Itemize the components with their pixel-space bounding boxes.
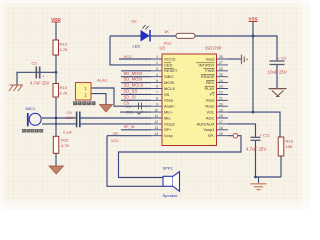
ground F (3 bars)	[251, 184, 267, 190]
no-ERC marker on SP- pin	[233, 133, 238, 138]
chip right pin names	[197, 56, 216, 138]
connector ALin1	[75, 78, 108, 101]
node A: R13/R14/C3 junction	[55, 71, 58, 74]
svg-text:SPK1: SPK1	[163, 166, 174, 171]
svg-text:Vssd: Vssd	[206, 56, 215, 61]
svg-text:R16: R16	[286, 139, 294, 144]
svg-text:SD_SS: SD_SS	[124, 89, 138, 94]
ground A (earth, hatched)	[9, 85, 23, 91]
svg-text:Vssa: Vssa	[164, 98, 174, 103]
svg-text:R12: R12	[164, 41, 172, 46]
svg-text:4.7uF 25V: 4.7uF 25V	[246, 147, 266, 152]
svg-text:CED: CED	[164, 62, 173, 67]
svg-text:4.7K: 4.7K	[61, 143, 70, 148]
wire ALin1 pin2 to ground B	[91, 94, 106, 105]
svg-text:C9: C9	[126, 105, 131, 109]
svg-text:SP_IN: SP_IN	[124, 125, 135, 129]
power VSS	[248, 17, 257, 22]
svg-text:16: 16	[219, 126, 223, 130]
svg-text:26: 26	[219, 67, 223, 71]
IC U3 ISD1760	[160, 46, 222, 146]
wire LED branch: down from top wire to pin 2	[110, 36, 151, 65]
svg-text:SS: SS	[164, 92, 170, 97]
wire R16 bottom stem	[280, 156, 282, 177]
svg-text:SP-: SP-	[113, 132, 120, 136]
svg-text:14: 14	[154, 132, 158, 136]
svg-text:4.7uF 25V: 4.7uF 25V	[30, 81, 50, 86]
speaker SPK1	[163, 166, 180, 198]
chip right pin numbers	[219, 55, 223, 136]
node B: mic bias junction	[55, 117, 58, 120]
svg-text:SIBO: SIBO	[164, 74, 174, 79]
ALin1 caption 线路输入端 (simulated glyph strokes)	[73, 101, 96, 105]
wire top rail: LED anode left segment	[110, 35, 141, 37]
wire speaker bottom lead	[107, 136, 163, 187]
svg-text:AnaIn: AnaIn	[164, 104, 174, 109]
svg-text:17: 17	[219, 120, 223, 124]
svg-text:10uF 25V: 10uF 25V	[268, 69, 288, 74]
svg-text:ALin1: ALin1	[97, 78, 108, 83]
svg-text:12: 12	[154, 120, 158, 124]
svg-text:9: 9	[156, 102, 158, 106]
svg-text:FT: FT	[210, 92, 215, 97]
resistor R14	[53, 84, 68, 98]
wire SP+ row 13 stub	[121, 129, 151, 131]
capacitor C9 C10 plates on mic lines	[77, 112, 80, 128]
wire chip row 1 right to arrow ground	[228, 58, 241, 60]
chip pin-name overbars (active-low marks)	[164, 63, 215, 93]
svg-text:VCCD: VCCD	[164, 56, 175, 61]
capacitor C11	[246, 133, 271, 152]
svg-text:FWD: FWD	[205, 68, 214, 73]
resistor R13	[53, 40, 68, 55]
svg-text:1: 1	[156, 55, 158, 59]
wire C11 bottom to bottom node	[255, 140, 257, 177]
capacitor C9/C10 labels	[63, 110, 74, 135]
svg-text:INT/RDY: INT/RDY	[199, 62, 215, 67]
svg-text:SD_SI: SD_SI	[124, 94, 136, 99]
svg-text:4.7K: 4.7K	[60, 91, 69, 96]
wire LED cathode to R12	[150, 35, 177, 37]
wire VDD stem to R13	[55, 22, 57, 40]
chip left pin numbers	[154, 55, 158, 136]
svg-text:AGC: AGC	[206, 115, 215, 120]
svg-text:SP+: SP+	[164, 127, 172, 132]
svg-text:24: 24	[219, 79, 223, 83]
svg-text:2: 2	[156, 61, 158, 65]
ground D (arrow on pin 28)	[242, 55, 248, 65]
capacitor C4	[268, 56, 288, 75]
svg-text:U3: U3	[160, 46, 166, 51]
svg-text:1K: 1K	[164, 29, 169, 34]
svg-text:21: 21	[219, 97, 223, 101]
svg-text:11: 11	[154, 114, 158, 118]
svg-text:28: 28	[219, 55, 223, 59]
wire mic node down to R15	[55, 118, 57, 136]
svg-text:20: 20	[219, 102, 223, 106]
wire C3 node to ground A	[17, 72, 56, 84]
wire chip row 10 right to R16	[228, 112, 280, 137]
svg-text:C10: C10	[66, 115, 74, 120]
svg-text:VCC: VCC	[111, 139, 119, 143]
svg-text:MOSI: MOSI	[164, 80, 174, 85]
capacitor C3	[30, 61, 50, 86]
svg-text:Vccp: Vccp	[164, 133, 174, 138]
svg-text:MCLK: MCLK	[164, 86, 175, 91]
LED D2	[132, 19, 151, 49]
svg-text:SD_MCLK: SD_MCLK	[124, 83, 144, 88]
node F: C11/R16 bottom junction	[254, 176, 257, 179]
chip left pin stubs	[151, 59, 162, 136]
wire VSS stem	[252, 22, 254, 36]
svg-text:D2: D2	[132, 19, 138, 24]
resistor R16	[278, 137, 293, 156]
wire R14 bottom to mic line	[55, 97, 57, 118]
mic caption 麦克风录音 (simulated glyph strokes)	[22, 129, 43, 133]
svg-text:Mic+: Mic+	[164, 110, 173, 115]
svg-text:VOL: VOL	[206, 110, 215, 115]
wire SP- loop: pin row 14 right, down and left	[119, 136, 242, 178]
wire R15 stem down to ground C	[55, 153, 57, 166]
svg-text:Speaker: Speaker	[163, 193, 179, 198]
svg-text:C3: C3	[32, 61, 38, 66]
microphone MIC1	[26, 106, 42, 126]
chip right pin stubs	[217, 59, 229, 136]
svg-text:+ C4: + C4	[278, 56, 287, 61]
svg-text:Mic-: Mic-	[164, 115, 172, 120]
svg-text:Vssa: Vssa	[206, 98, 216, 103]
svg-text:19: 19	[219, 108, 223, 112]
svg-text:27: 27	[219, 61, 223, 65]
svg-text:RESET: RESET	[164, 68, 178, 73]
svg-text:25: 25	[219, 73, 223, 77]
wire mic line Mic- row 12	[42, 123, 151, 125]
svg-text:3: 3	[156, 67, 158, 71]
chip left pin names	[164, 56, 178, 138]
node E: VSS rail / row10 junction	[252, 111, 255, 114]
wire bottom node to ground F stem	[258, 177, 260, 183]
svg-text:8: 8	[156, 97, 158, 101]
svg-text:R15: R15	[61, 138, 69, 143]
wire bottom node rail to R16	[256, 176, 282, 178]
capacitor C9b C10b small caps near chip	[126, 103, 143, 115]
svg-text:6: 6	[156, 85, 158, 89]
wire chip row 12 right to C11	[228, 124, 256, 137]
resistor R12	[164, 29, 195, 46]
svg-text:MIC1: MIC1	[26, 106, 36, 111]
wire VSS rail down to row 10	[252, 36, 254, 112]
resistor R15	[53, 136, 69, 153]
node C: mic line 2 junction	[55, 123, 57, 125]
wire chip row 10 stub	[120, 111, 151, 113]
svg-text:4: 4	[156, 73, 158, 77]
svg-text:VSS: VSS	[248, 17, 257, 22]
node D: VSS rail junction	[252, 35, 255, 38]
ground B (filled triangle)	[100, 105, 113, 113]
ground C (filled triangle)	[49, 166, 64, 174]
svg-text:0.1uF: 0.1uF	[63, 131, 73, 135]
svg-text:+ C11: + C11	[260, 133, 271, 138]
svg-text:VCC: VCC	[124, 54, 133, 59]
svg-text:R13: R13	[60, 42, 68, 47]
svg-text:LED: LED	[133, 44, 141, 49]
svg-text:23: 23	[219, 85, 223, 89]
wire mic line Mic+ row 11	[42, 117, 151, 119]
wire net label rows 3-8 left of chip	[121, 71, 151, 101]
svg-text:REC: REC	[206, 80, 215, 85]
svg-text:7: 7	[156, 91, 158, 95]
svg-text:18: 18	[219, 114, 223, 118]
svg-text:ERASE: ERASE	[201, 74, 215, 79]
power VDD	[51, 17, 61, 22]
wire VCC to pin 1	[119, 58, 151, 60]
svg-text:Vssp2: Vssp2	[164, 121, 176, 126]
svg-text:R14: R14	[60, 85, 68, 90]
svg-text:5: 5	[156, 79, 158, 83]
wire row 14 left from speaker vertical	[107, 135, 151, 137]
svg-text:4.7K: 4.7K	[60, 47, 69, 52]
svg-text:SD_MOSI: SD_MOSI	[124, 77, 143, 82]
svg-text:Rosc: Rosc	[205, 104, 214, 109]
wire ALin1 pin1 to chip AnaIn row 9	[91, 88, 151, 106]
svg-text:13: 13	[154, 126, 158, 130]
svg-text:AUD/AUX: AUD/AUX	[197, 121, 215, 126]
svg-text:VDD: VDD	[51, 17, 61, 22]
wire C4 bottom to ground E	[276, 65, 278, 89]
svg-text:15: 15	[219, 132, 223, 136]
svg-text:22: 22	[219, 91, 223, 95]
ground E (3 bars)	[269, 89, 287, 97]
wire R13 bottom to R14 top through C3 node	[55, 55, 57, 84]
svg-text:ISD1760: ISD1760	[205, 46, 222, 51]
svg-text:SD_MISO: SD_MISO	[124, 71, 144, 76]
svg-text:C10: C10	[126, 111, 133, 115]
svg-text:SP-: SP-	[208, 133, 215, 138]
svg-text:PLAY: PLAY	[205, 86, 215, 91]
wire R12 to VSS junction and on to C4 corner	[195, 36, 277, 61]
svg-text:Vssp1: Vssp1	[203, 127, 215, 132]
svg-text:10: 10	[154, 108, 158, 112]
svg-text:10K: 10K	[286, 144, 293, 149]
